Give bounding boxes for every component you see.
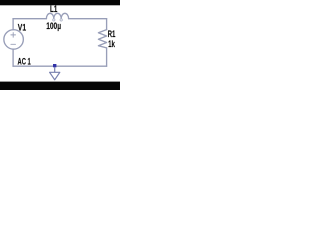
svg-text:R1: R1 bbox=[108, 29, 116, 40]
svg-text:100µ: 100µ bbox=[46, 21, 61, 31]
svg-text:L1: L1 bbox=[50, 4, 58, 15]
svg-text:1k: 1k bbox=[108, 39, 115, 50]
svg-text:V1: V1 bbox=[18, 22, 27, 32]
svg-text:AC 1: AC 1 bbox=[18, 56, 32, 67]
